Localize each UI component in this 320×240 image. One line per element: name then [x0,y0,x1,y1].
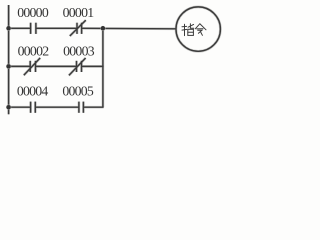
coil text 令 (drawn strokes) [195,24,206,36]
coil text 指 (drawn strokes) [182,24,194,36]
svg-text:00004: 00004 [17,84,49,99]
svg-text:00003: 00003 [63,44,95,59]
svg-text:00005: 00005 [62,84,94,99]
junction rail-rung2 [6,64,11,69]
svg-text:00002: 00002 [18,44,50,59]
junction rail-rung3 [6,105,11,110]
ink core pass [9,5,221,114]
scan halo pass [9,5,221,114]
svg-text:00000: 00000 [17,5,49,20]
junction rail-rung1 [6,26,11,31]
svg-text:00001: 00001 [63,5,95,20]
junction rung1-branch [100,26,105,31]
